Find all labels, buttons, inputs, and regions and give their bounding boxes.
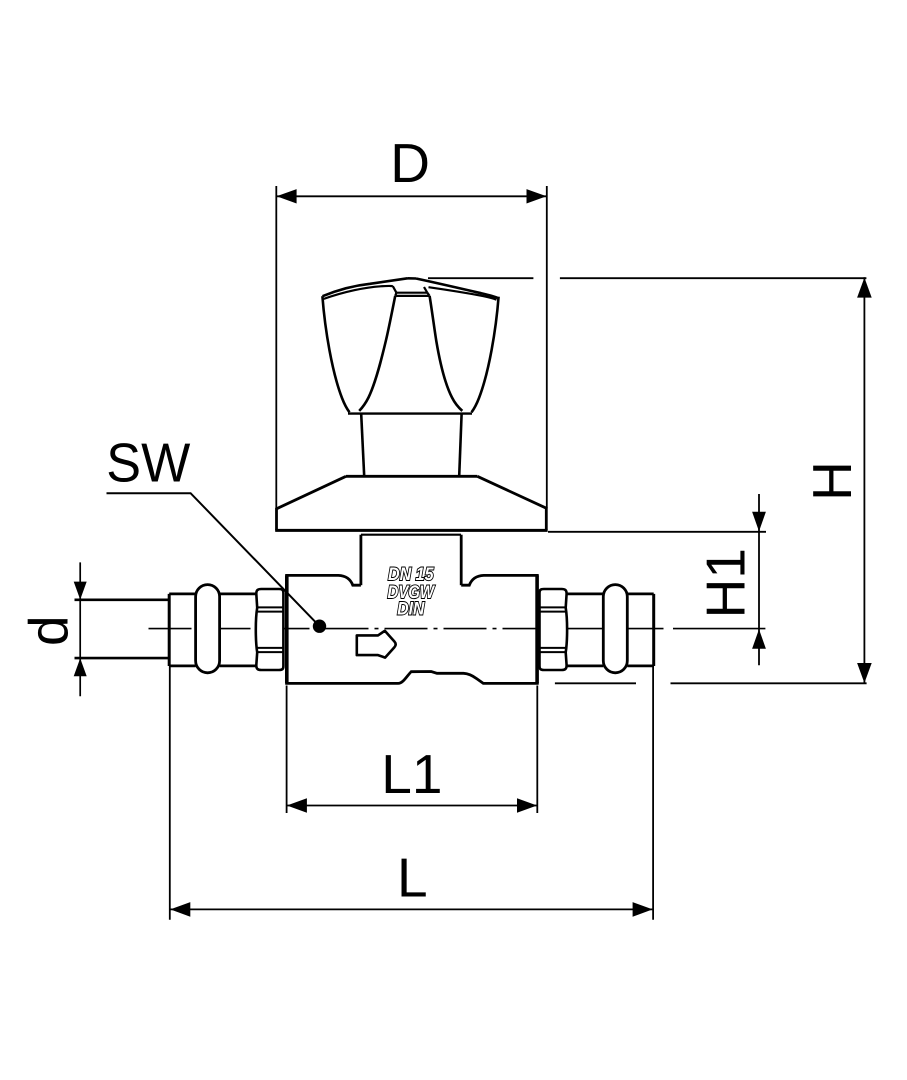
L arrowhead left [170,902,190,917]
L1 dimension line [287,805,538,807]
bonnet lip line [361,534,461,536]
dimension D arrowhead left [277,189,297,203]
H bottom extension line [555,682,867,684]
svg-text:L: L [397,847,428,909]
d arrowhead lower [74,658,87,676]
d arrowhead upper [74,582,87,600]
handwheel base line [348,412,472,414]
right union nut outline [540,589,568,670]
L1 extension line left [286,686,288,814]
svg-text:SW: SW [106,432,190,494]
svg-text:DIN: DIN [397,599,425,619]
left fitting cylinder top [169,593,256,596]
centerline dash-dot [149,628,665,630]
right press bead [603,585,627,673]
H dimension line [863,277,865,683]
L extension line right [652,666,654,920]
handwheel stem right edge [459,414,461,476]
bonnet bell right slant [477,476,546,530]
L1 extension line right [536,686,538,814]
dimension D arrowhead right [527,189,547,203]
handwheel knob chamfer line right [429,287,497,300]
dimension D extension line left [275,186,277,509]
svg-text:DN 15: DN 15 [388,564,434,584]
L1 arrowhead right [517,798,537,813]
dimension D line [276,195,547,197]
handwheel hub front lower edge [395,293,429,296]
L arrowhead right [633,902,653,917]
handwheel hub right side [424,287,427,293]
H1 dimension line [758,494,760,665]
d dimension line [79,562,81,696]
left union nut band lines [257,607,284,652]
handwheel left valley edge [359,296,395,411]
bonnet lower stem right [460,535,463,586]
handwheel knob outer top edge left [323,278,408,296]
left pipe bottom edge [75,657,170,660]
left pipe top edge [75,598,170,601]
valve body bottom edge with notch [285,672,539,684]
handwheel left outer side [322,296,349,412]
SW leader line [107,493,320,626]
svg-text:d: d [18,615,80,646]
right fitting end edge [652,594,655,666]
svg-text:H1: H1 [695,548,757,618]
handwheel stem left edge [361,414,364,476]
svg-text:L1: L1 [381,743,442,805]
handwheel hub left side [393,286,397,293]
H arrowhead top [857,278,872,298]
flow direction arrow [357,631,396,658]
handwheel knob apex flat [408,277,417,280]
handwheel knob chamfer line left [324,286,393,299]
svg-text:H: H [801,461,863,501]
right union nut band lines [539,607,566,652]
bonnet lower stem left [359,535,362,586]
valve body top edge right [461,575,539,585]
L dimension line [170,908,653,910]
bonnet bell bottom edge [275,529,547,532]
handwheel hub front upper edge [396,292,427,294]
H top extension line [428,277,866,279]
left fitting cylinder bottom [169,665,256,668]
handwheel right outer side [472,297,499,413]
valve body right edge [535,575,539,683]
bonnet bell left slant [277,476,347,530]
valve body left edge [285,575,289,683]
SW marker dot [313,620,326,633]
left fitting end edge [168,594,171,666]
svg-text:D: D [390,132,430,194]
handwheel knob outer top edge right [416,279,498,298]
left union nut outline [256,589,284,670]
H arrowhead bottom [857,663,872,683]
dimension D extension line right [546,186,548,508]
L1 arrowhead left [287,798,307,813]
handwheel right valley edge [430,296,463,411]
valve body top edge left [285,575,361,585]
right fitting cylinder bottom [567,665,654,668]
bonnet bell top edge [346,475,477,478]
L extension line left [169,666,171,920]
right fitting cylinder top [567,593,654,596]
H1 upper reference line [548,531,766,533]
H1 arrowhead upper [752,512,766,532]
left press bead [196,585,220,673]
centerline solid extension to H1 [673,628,765,630]
H1 arrowhead lower [752,629,766,649]
